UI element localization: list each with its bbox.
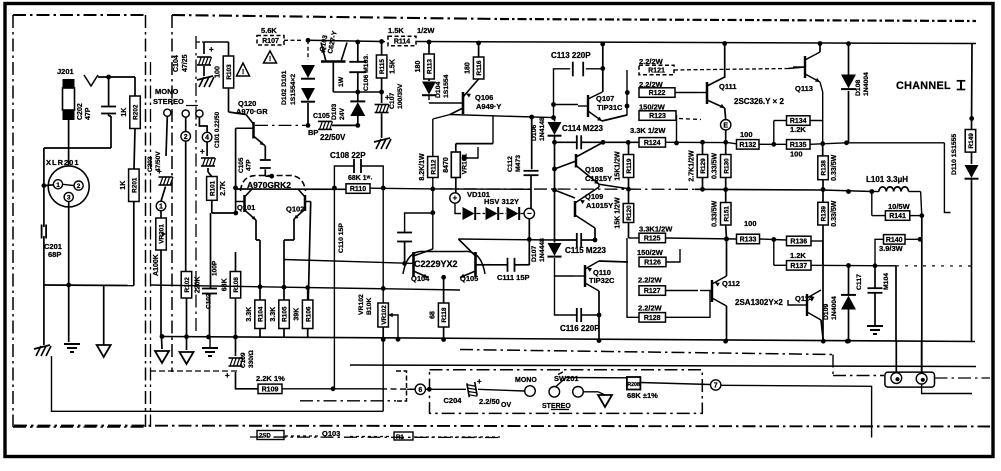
svg-text:3.9/3W: 3.9/3W [879, 244, 904, 253]
svg-text:R140: R140 [886, 237, 903, 244]
wire r133 right [760, 239, 787, 240]
wire c109 r109 [236, 372, 259, 389]
wire c106 bot [357, 72, 359, 92]
svg-text:1N4448: 1N4448 [539, 238, 546, 262]
wire q109 e down [594, 228, 596, 240]
svg-text:R126: R126 [644, 260, 661, 267]
node r116 top [476, 41, 481, 46]
wire r136 r137 left [774, 240, 787, 266]
wire r141 left [872, 215, 886, 217]
wire sw c jog [199, 117, 207, 132]
transistor Q109 label [585, 192, 613, 210]
wire vd bc [500, 213, 507, 215]
svg-text:100: 100 [790, 150, 803, 159]
label MONO [155, 87, 178, 96]
wire conn2 up [921, 341, 923, 373]
wire vr101 top [456, 144, 493, 152]
wire r109 out [282, 388, 415, 390]
switch arm [556, 378, 566, 387]
wire c107 gnd [381, 114, 383, 139]
connector XLR201 label [46, 158, 80, 167]
capacitor C203 [157, 167, 173, 185]
node sp2 [821, 339, 826, 344]
svg-text:TIP31C: TIP31C [597, 103, 623, 112]
transistor Q113 label [795, 84, 813, 93]
wire node1 pot [160, 211, 162, 218]
wire q120 down to ic [265, 146, 274, 179]
wire d109 top [848, 265, 850, 295]
svg-text:C105: C105 [313, 113, 330, 120]
wire feedback drop [333, 188, 335, 389]
wire plus diode [455, 203, 461, 213]
svg-text:R130: R130 [723, 158, 730, 174]
svg-text:1N4004: 1N4004 [831, 296, 838, 320]
resistor R123 value [639, 103, 666, 112]
capacitor C107 [375, 93, 390, 113]
svg-text:A949·Y: A949·Y [476, 102, 501, 111]
node bp [306, 123, 311, 128]
transistor Q101 label [237, 203, 255, 212]
capacitor C108 [354, 159, 361, 173]
resistor R125 value [639, 225, 673, 234]
wire r136 right [811, 241, 823, 266]
ground tri sw [598, 395, 612, 407]
wire C202 top [108, 77, 110, 106]
resistor R130 [712, 153, 731, 179]
svg-text:100: 100 [744, 219, 757, 228]
wire c116 left [555, 276, 577, 315]
node r137 r2 [873, 263, 878, 268]
label 0V [501, 402, 511, 409]
svg-text:BP: BP [308, 128, 318, 137]
svg-text:R133: R133 [740, 237, 757, 244]
switch circle stereo1 [549, 387, 560, 398]
node r129 bot [700, 187, 705, 192]
section box A left edge [12, 15, 14, 427]
node plus [450, 193, 460, 203]
svg-text:C202: C202 [77, 103, 84, 120]
resistor R115 [376, 55, 396, 78]
wire input node h [44, 147, 111, 149]
wire c117 top [874, 266, 876, 289]
resistor R114 value [388, 26, 435, 35]
wire c110 up [405, 213, 433, 233]
wire left drop [43, 148, 45, 227]
jack J201 [63, 79, 75, 120]
ic C2229YX2 envelope [403, 251, 485, 274]
svg-text:Q113: Q113 [795, 84, 813, 93]
svg-text:A1015Y: A1015Y [586, 201, 613, 210]
wire r137 right [811, 264, 896, 267]
svg-text:VR102: VR102 [358, 294, 365, 315]
node r119 top [626, 140, 631, 145]
resistor R120 [615, 197, 634, 229]
svg-text:R138: R138 [821, 160, 828, 176]
wire r134 left [774, 121, 787, 145]
wire c114 row [555, 141, 640, 143]
node r140 r [918, 237, 923, 242]
node E [721, 120, 731, 130]
svg-text:1K: 1K [121, 108, 128, 117]
svg-text:15K 1/2W: 15K 1/2W [615, 197, 622, 229]
node q111 c [722, 41, 727, 46]
resistor R135 [787, 140, 811, 150]
transistor Q114 [795, 290, 821, 320]
diode D109 [841, 295, 856, 310]
wire q111 c up [724, 44, 726, 79]
ground hatch C104 [197, 76, 214, 87]
transistor Q104 label [411, 274, 430, 283]
node jack top [106, 75, 111, 80]
diode D110 label [951, 134, 958, 175]
section box A top edge [13, 14, 146, 16]
svg-text:3.3K1/2W: 3.3K1/2W [639, 225, 673, 234]
inductor L101 label [866, 175, 908, 184]
svg-text:C106 M103˒: C106 M103˒ [363, 54, 370, 91]
section box B top edge right [500, 19, 976, 21]
wire R104 down [259, 329, 261, 338]
wire r112 up [433, 115, 450, 157]
wire R108 down [235, 298, 237, 337]
wire l101 left [823, 190, 872, 192]
svg-text:D109: D109 [823, 304, 830, 320]
diode D101 [301, 65, 315, 79]
svg-text:1.2K: 1.2K [790, 125, 806, 134]
svg-text:68P: 68P [48, 250, 61, 259]
svg-text:D106: D106 [531, 125, 538, 141]
capacitor C106 [349, 62, 366, 72]
resistor R126 [639, 257, 666, 267]
wire r119 top [628, 142, 630, 154]
resistor R135 value [790, 150, 803, 159]
wire r138 top [822, 144, 824, 156]
capacitor C201 [42, 225, 47, 239]
wire r138 bot [822, 180, 824, 190]
wire r110 to vd [433, 188, 531, 190]
svg-text:C105: C105 [238, 157, 245, 173]
wire d108 top [848, 44, 850, 77]
output section dash-dot drop [832, 355, 834, 376]
wire R101 down [212, 200, 238, 215]
capacitor C202 label [77, 103, 92, 120]
wire d103 down [357, 116, 359, 126]
wire d102 down [307, 103, 309, 125]
wire d106 down [554, 136, 556, 142]
svg-text:1N4148: 1N4148 [539, 117, 546, 141]
capacitor C203 label [147, 151, 162, 172]
svg-text:R129: R129 [700, 158, 707, 174]
wire C102 down [209, 294, 211, 337]
wire l101 right [909, 191, 921, 193]
ground tri input [97, 345, 111, 357]
svg-text:R112: R112 [430, 159, 437, 174]
wire sw b down [185, 117, 187, 131]
svg-text:1W: 1W [338, 76, 345, 87]
resistor R138 [818, 154, 838, 180]
wire q110 base [555, 258, 574, 276]
wire r121 dash right [674, 69, 788, 71]
wire C101 R101 [208, 168, 212, 177]
wire wiper right [464, 147, 478, 158]
wire gnd drop2 [68, 285, 70, 342]
node r118 bot [441, 337, 446, 342]
capacitor C104 [197, 45, 214, 65]
wire gnd drop1 [43, 285, 45, 345]
resistor R105 [270, 300, 289, 329]
switch circle mono [525, 386, 536, 397]
wire q102 base [308, 202, 310, 301]
resistor R202 [121, 96, 140, 129]
svg-text:R208: R208 [627, 382, 640, 388]
diode D104 [422, 82, 436, 96]
amp section bottom dash [300, 400, 396, 402]
wire C201 bottom [43, 236, 45, 285]
svg-text:R127: R127 [644, 288, 661, 295]
svg-text:R103: R103 [226, 64, 233, 80]
node 1 [156, 201, 166, 211]
node r151 bot [724, 237, 729, 242]
wire q114 base [788, 300, 795, 305]
svg-text:Q103: Q103 [322, 429, 340, 438]
transistor Q107 [578, 92, 602, 121]
connector J201 label [57, 67, 74, 76]
wire r125 right [666, 238, 737, 239]
svg-text:330/Ω: 330/Ω [248, 350, 255, 368]
wire r123 dash stub [679, 119, 701, 120]
wire q110 e up [599, 261, 628, 262]
resistor R124 [639, 138, 666, 148]
transistor Q102 [294, 189, 311, 219]
svg-text:R102: R102 [184, 277, 191, 293]
resistor R119 [615, 151, 634, 181]
wire jack down [68, 120, 70, 148]
wire c111 right [514, 264, 529, 266]
wire stereo2 gnd [583, 392, 605, 395]
ground bar c117 [867, 326, 883, 334]
wire l101 r141 right [921, 192, 922, 216]
svg-text:!: ! [269, 56, 271, 63]
capacitor C104 label [173, 54, 189, 72]
svg-text:Q109: Q109 [585, 192, 603, 201]
svg-text:47P: 47P [85, 107, 92, 120]
svg-text:R202: R202 [133, 104, 140, 120]
section box B left edge [171, 15, 173, 372]
capacitor C201 label [44, 242, 62, 259]
wire q105 base [476, 264, 491, 266]
capacitor C116 label [560, 324, 600, 333]
wire emitters join [441, 275, 446, 280]
resistor R107 [257, 36, 284, 46]
svg-text:R125: R125 [644, 236, 661, 243]
wire q107 base [551, 102, 578, 107]
capacitor C111 label [497, 273, 530, 282]
svg-text:47P: 47P [246, 159, 253, 171]
wire c113 left [554, 69, 571, 118]
resistor R118 [430, 303, 449, 327]
capacitor C204 value [479, 397, 500, 406]
resistor R127 value [638, 276, 663, 285]
resistor R129 [689, 150, 708, 182]
wire top to cap [98, 76, 135, 78]
capacitor C204 box [430, 370, 703, 414]
svg-text:C108 22P: C108 22P [330, 151, 366, 160]
wire r139 bot [822, 225, 824, 341]
node r112 bot [430, 187, 435, 192]
node q105 c minus [527, 237, 532, 242]
wire r139 top [822, 190, 824, 203]
label 1W [338, 76, 345, 87]
wire c117 bot [874, 293, 876, 325]
node minus [524, 208, 534, 218]
resistor R109 [258, 384, 282, 394]
svg-text:R104: R104 [258, 306, 265, 322]
node sp3 [845, 339, 850, 344]
svg-text:C115 M223: C115 M223 [565, 246, 606, 255]
wire r119 r120 [628, 178, 630, 204]
svg-text:R149: R149 [968, 133, 975, 149]
svg-text:R123: R123 [649, 113, 666, 120]
wire r149 d110 [971, 152, 973, 164]
node l101 d109col [846, 189, 851, 194]
capacitor C114 [577, 135, 581, 149]
switch contact b [182, 110, 189, 117]
svg-text:−: − [527, 209, 532, 218]
svg-text:2SA1302Y×2: 2SA1302Y×2 [735, 298, 783, 307]
wire minus down [528, 219, 530, 265]
wire vr102 bot [382, 327, 384, 339]
wire l101 lbracket [872, 191, 879, 193]
node 7 [711, 380, 721, 390]
resistor R136 [787, 236, 812, 246]
svg-text:D110 1S1555: D110 1S1555 [951, 134, 958, 175]
resistor R136 value [790, 251, 806, 260]
capacitor C112 [524, 171, 539, 175]
resistor R141 [885, 211, 909, 221]
svg-text:100P: 100P [212, 260, 219, 276]
node r104 [258, 284, 263, 289]
wire fb corner [52, 356, 384, 411]
capacitor C109 [225, 358, 243, 380]
svg-text:8470: 8470 [443, 157, 450, 173]
transistor Q106 label [475, 93, 501, 111]
ground hatch input [34, 345, 51, 356]
node d109 bot [846, 339, 851, 344]
resistor R133 value [744, 219, 757, 228]
wire q120 base drop [233, 128, 238, 213]
svg-text:R201: R201 [131, 177, 138, 193]
wire conn1 up [895, 266, 897, 372]
wire vr101 feed [492, 116, 494, 144]
svg-text:TIP32C: TIP32C [589, 276, 615, 285]
wire r118 top [443, 277, 445, 303]
resistor R124 value [630, 126, 666, 135]
svg-text:180: 180 [415, 61, 422, 73]
svg-text:1: 1 [56, 182, 60, 189]
resistor R140 [884, 235, 906, 245]
svg-text:MONO: MONO [515, 377, 537, 384]
diode D106 label [531, 117, 546, 141]
resistor R108 [222, 272, 241, 299]
node g3 [206, 335, 211, 340]
svg-text:2.7K1/2W: 2.7K1/2W [689, 150, 696, 182]
node vr101 wiper [462, 156, 467, 161]
resistor R126 value [637, 248, 664, 257]
wire d107 up [554, 235, 556, 243]
resistor R139 [818, 200, 838, 226]
wire conn2 out [922, 384, 972, 393]
wire sw a down [166, 116, 167, 156]
wire q101 emitter drop [256, 220, 260, 300]
wire c111 left [490, 264, 508, 266]
wire r115 bot [381, 78, 383, 103]
wire c108 left [334, 166, 354, 188]
svg-text:100: 100 [215, 66, 222, 78]
wire q110 c down [598, 291, 600, 315]
node r119 mid [626, 187, 631, 192]
label STEREO [153, 97, 198, 106]
svg-text:OV: OV [501, 402, 511, 409]
capacitor C202 [101, 107, 116, 114]
resistor R137 [787, 261, 812, 271]
svg-text:C111 15P: C111 15P [497, 273, 530, 282]
diode D101 D102 labels [281, 70, 297, 105]
wire r112 bot [430, 178, 435, 250]
output section dash-dot [460, 350, 833, 355]
wire c203 node1 [161, 187, 166, 202]
node q106 d106 [551, 115, 556, 120]
connector circle 2 [916, 373, 927, 384]
wire r135 right [810, 143, 847, 145]
wire r140 right [905, 238, 922, 240]
ground cluster tri1 [155, 351, 169, 363]
svg-text:2: 2 [77, 183, 81, 190]
wire r135 to 944 [847, 142, 945, 144]
diode VD101a [463, 207, 476, 220]
svg-text:A100K: A100K [153, 254, 160, 276]
wire q113 c up [819, 44, 821, 53]
svg-text:3.3K: 3.3K [246, 307, 253, 322]
input box B bottom stub [150, 370, 240, 372]
wire speaker line [350, 365, 976, 367]
node g1 [160, 334, 165, 339]
svg-text:R124: R124 [644, 140, 661, 147]
wire d101 dash [307, 40, 309, 60]
diode D102 [301, 88, 315, 102]
connector box [885, 372, 935, 387]
svg-text:0.33/5W: 0.33/5W [712, 200, 719, 226]
wire r132 right [759, 143, 765, 145]
wire xlr pin3 down [68, 202, 70, 285]
wire R106 top [307, 288, 309, 300]
resistor R110 [346, 184, 370, 194]
wire r140 left [875, 239, 884, 265]
svg-text:1.5K: 1.5K [390, 59, 397, 74]
wire r122 right [675, 92, 698, 94]
svg-text:180: 180 [465, 62, 472, 74]
wire r123 right [674, 116, 679, 146]
resistor R106 [294, 300, 313, 329]
resistor R102 [181, 272, 201, 299]
transistor Q113 [793, 52, 820, 82]
resistor R132 [737, 140, 760, 150]
resistor R107 value [261, 26, 277, 35]
capacitor C113 label [551, 51, 591, 60]
top rail 2 [416, 42, 976, 44]
node 4 [202, 132, 212, 142]
resistor R149 [965, 130, 976, 153]
wire r128 right [666, 291, 711, 318]
wire r151 bot [725, 225, 728, 239]
